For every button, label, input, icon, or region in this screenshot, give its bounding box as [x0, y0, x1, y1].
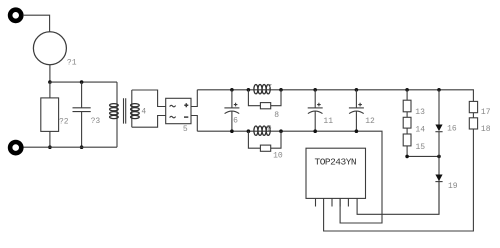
wire bridge outputs — [191, 90, 197, 107]
pin 2 wire to resistors 17/18 — [324, 129, 474, 231]
resistor 8 — [248, 90, 260, 106]
IC U1 TOP243YN — [306, 148, 366, 198]
resistor ?2 — [49, 82, 51, 98]
diode 16 — [437, 88, 441, 92]
pin 5 — [347, 198, 349, 206]
svg-text:19: 19 — [448, 182, 458, 191]
inductor 9 — [247, 129, 251, 133]
junction — [80, 145, 84, 149]
diode 19 — [438, 156, 440, 174]
svg-text:7: 7 — [267, 84, 272, 93]
wire — [49, 65, 51, 82]
svg-text:18: 18 — [481, 125, 491, 134]
transformer 4 primary winding — [116, 82, 118, 147]
capacitor 12 — [355, 88, 359, 92]
terminal P1 — [10, 10, 21, 21]
wire secondary bottom — [132, 116, 166, 128]
capacitor 6 — [230, 88, 234, 92]
pin 1 — [315, 198, 317, 206]
pin 6 wire to diode 19 — [357, 180, 439, 214]
svg-text:4: 4 — [141, 107, 146, 116]
pin 3 — [331, 198, 333, 206]
svg-text:16: 16 — [447, 125, 457, 134]
resistor 17 — [469, 101, 477, 112]
svg-text:9: 9 — [267, 125, 272, 134]
resistor 18 — [472, 113, 474, 118]
junction — [48, 80, 52, 84]
junction — [48, 145, 52, 149]
transformer 4 secondary winding — [131, 90, 133, 127]
wire top AC rail — [50, 81, 117, 83]
transformer 4 core — [124, 98, 126, 123]
wire DC+ rail — [197, 90, 473, 102]
wire — [23, 15, 50, 32]
svg-text:14: 14 — [415, 125, 425, 134]
svg-text:17: 17 — [481, 108, 491, 117]
capacitor ?3 — [81, 82, 83, 108]
svg-text:?1: ?1 — [67, 59, 77, 68]
inductor 7 — [247, 88, 251, 92]
wire bottom AC rail — [23, 146, 117, 148]
svg-text:11: 11 — [323, 117, 333, 126]
wire secondary top — [132, 90, 166, 107]
svg-text:15: 15 — [416, 143, 426, 152]
svg-text:?3: ?3 — [91, 117, 101, 126]
resistor 14 — [406, 112, 408, 118]
svg-text:13: 13 — [415, 108, 425, 117]
capacitor 11 — [313, 88, 317, 92]
svg-text:TOP243YN: TOP243YN — [315, 157, 357, 168]
svg-text:10: 10 — [273, 152, 283, 161]
svg-text:6: 6 — [233, 116, 238, 125]
svg-text:5: 5 — [183, 125, 188, 134]
resistor 15 — [406, 128, 408, 134]
wire DC- rail — [197, 131, 382, 223]
resistor 13 — [405, 88, 409, 92]
svg-text:12: 12 — [365, 117, 375, 126]
pin 4 wire to DC- rail — [339, 198, 341, 206]
junction — [80, 80, 84, 84]
wire chain bottom — [407, 146, 439, 157]
svg-text:?2: ?2 — [59, 117, 69, 126]
resistor 10 — [248, 131, 260, 148]
terminal P2 — [10, 142, 21, 153]
svg-text:8: 8 — [274, 111, 279, 120]
bridge rectifier 5 — [166, 98, 191, 123]
AC source ?1 — [33, 32, 66, 65]
